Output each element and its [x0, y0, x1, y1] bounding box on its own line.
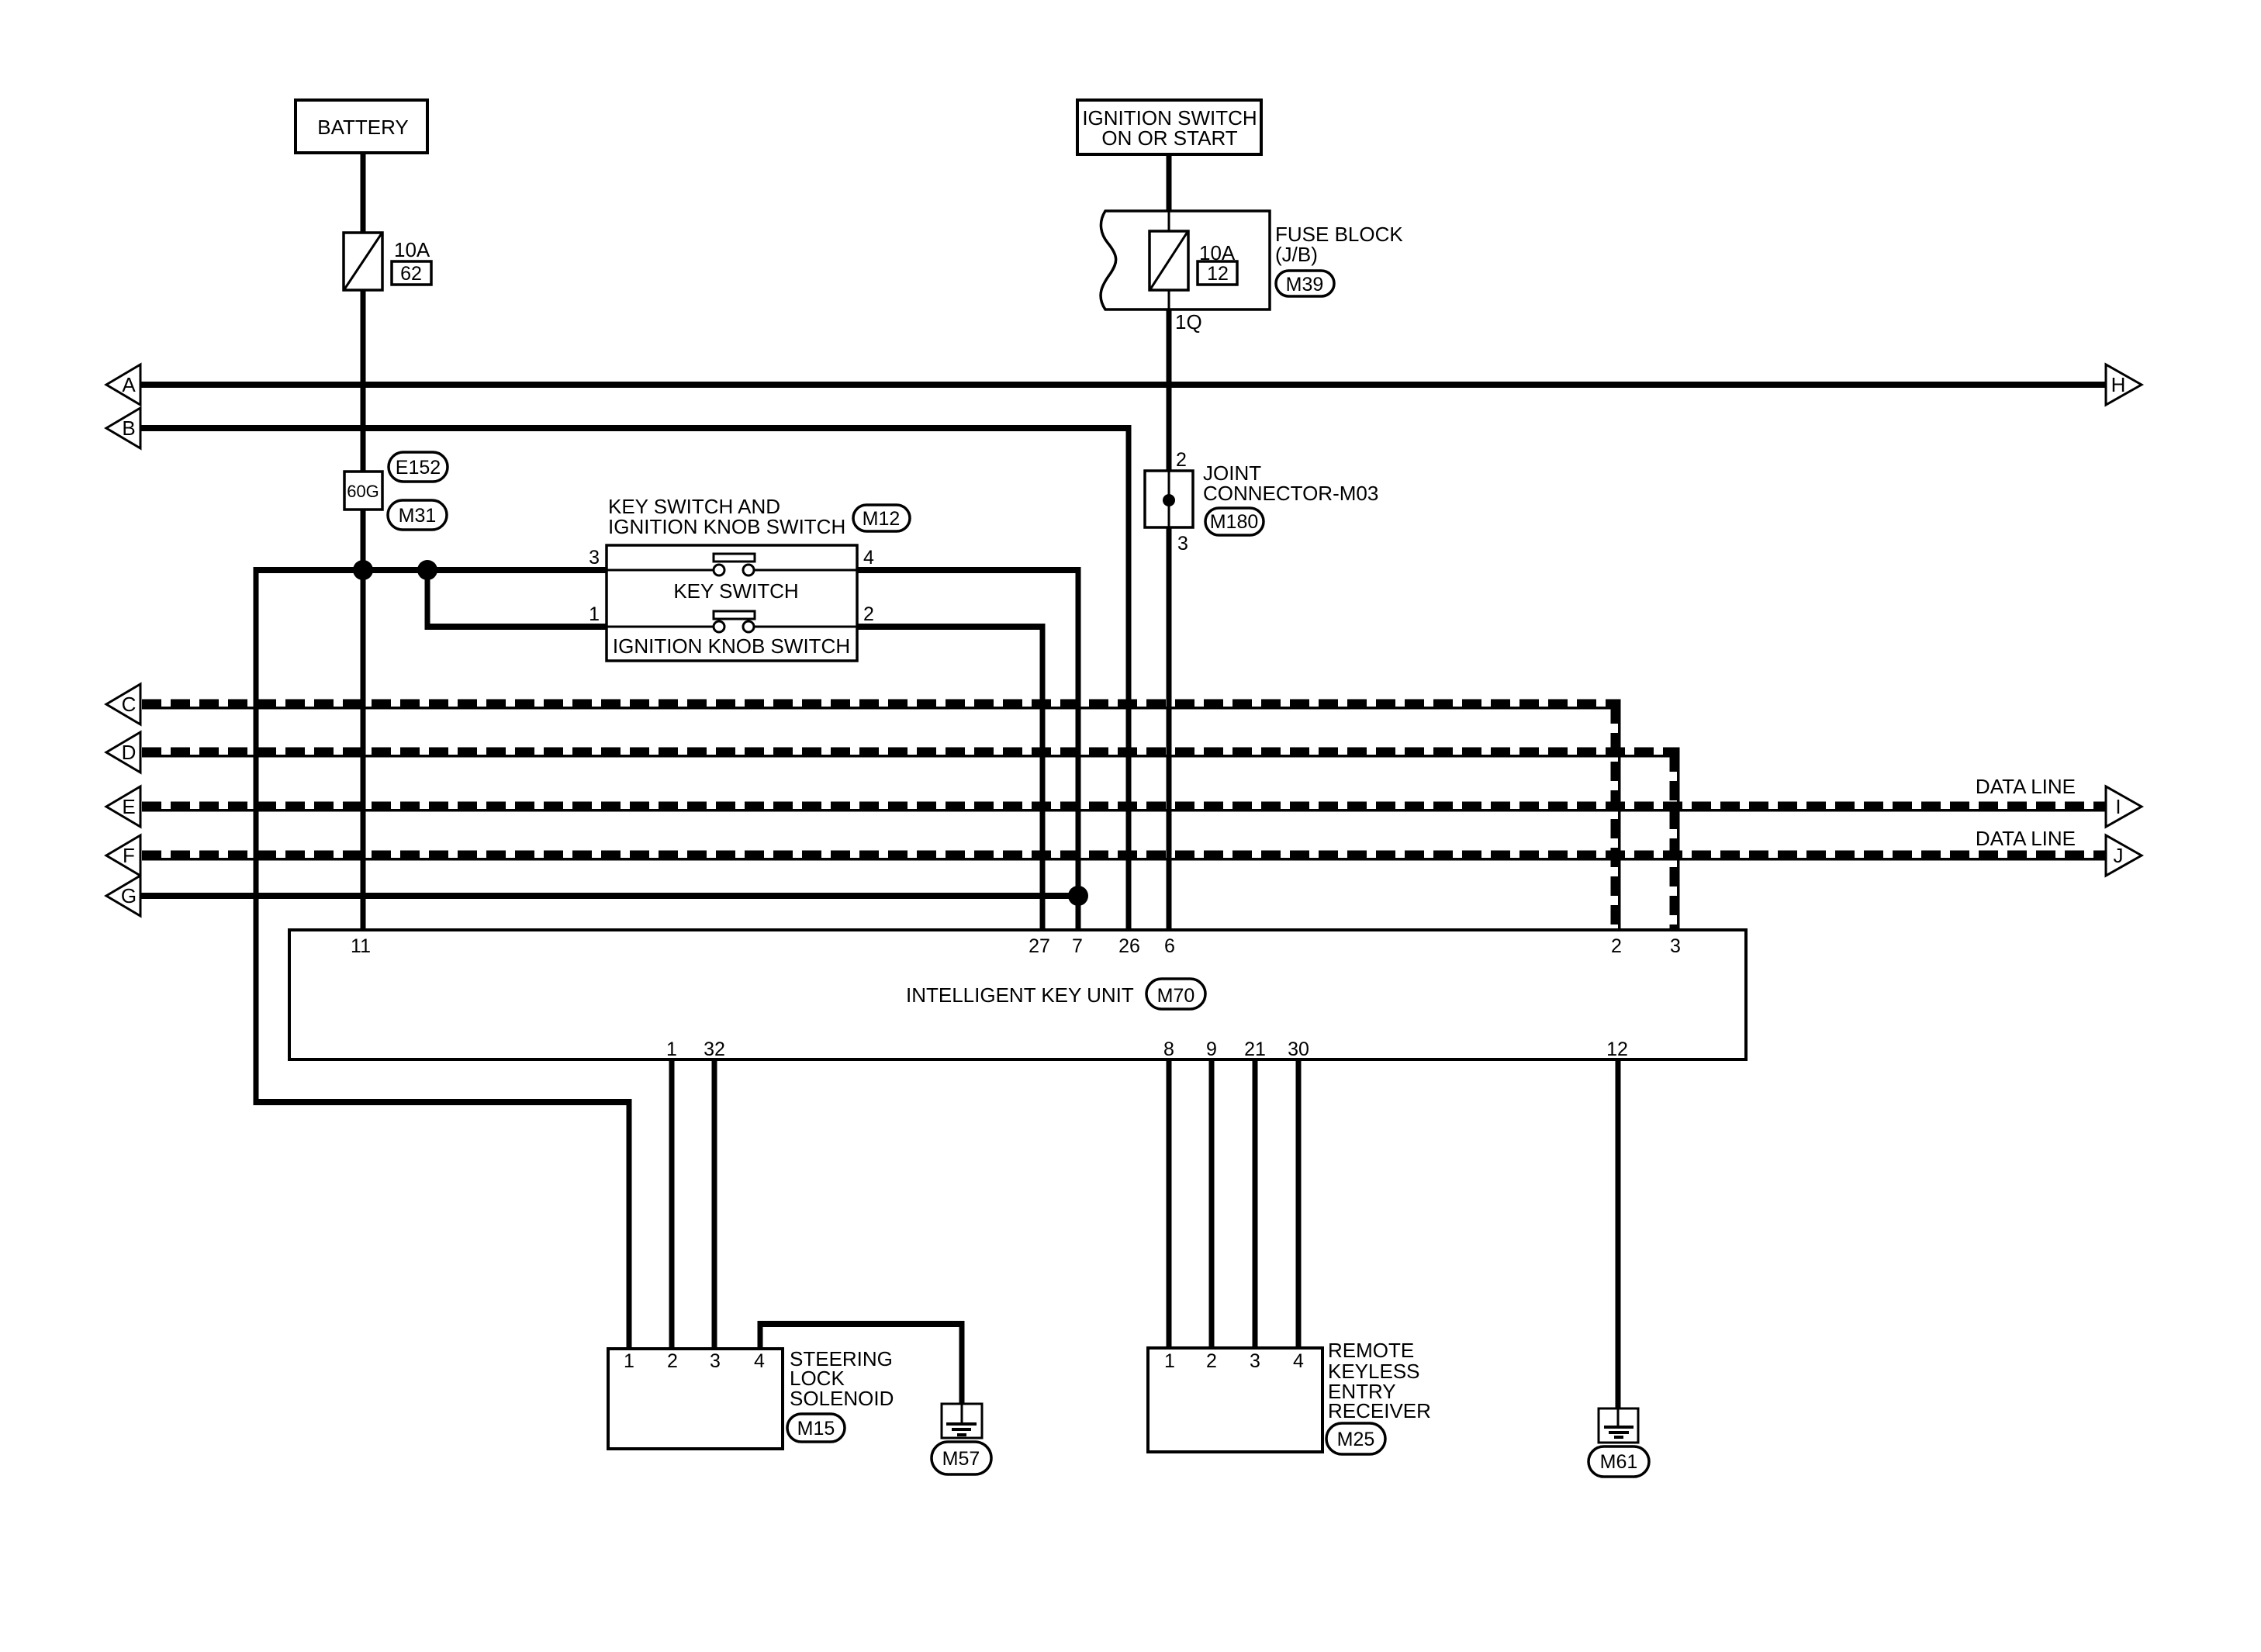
wire fuse 62 down to IKU pin 11	[361, 290, 366, 930]
svg-text:1: 1	[666, 1039, 677, 1060]
svg-text:B: B	[122, 416, 135, 440]
connector label M31	[388, 500, 447, 530]
connector label M12	[853, 505, 910, 531]
svg-text:27: 27	[1029, 935, 1050, 957]
connector label M25	[1326, 1423, 1385, 1454]
wire IKU pin 9 to receiver pin 2	[1209, 1059, 1215, 1348]
data line F	[142, 855, 2106, 859]
svg-text:3: 3	[589, 547, 600, 569]
arrow F	[106, 835, 140, 876]
wire joint connector to IKU pin 6	[1167, 527, 1172, 930]
svg-text:4: 4	[863, 547, 874, 569]
svg-text:DATA LINE: DATA LINE	[1976, 775, 2076, 798]
svg-text:BATTERY: BATTERY	[317, 116, 409, 139]
wire IKU pin 21 to receiver pin 3	[1253, 1059, 1258, 1348]
svg-text:M70: M70	[1157, 985, 1195, 1007]
svg-text:M180: M180	[1210, 511, 1259, 533]
data line C	[142, 700, 1621, 931]
svg-text:12: 12	[1207, 263, 1229, 285]
key switch pin 2 wire to IKU pin 27	[857, 624, 1046, 630]
svg-text:M12: M12	[863, 508, 901, 530]
svg-text:3: 3	[710, 1350, 721, 1372]
svg-text:RECEIVER: RECEIVER	[1328, 1399, 1431, 1422]
connector label E152	[389, 452, 448, 482]
svg-text:4: 4	[754, 1350, 765, 1372]
svg-text:M15: M15	[797, 1418, 835, 1439]
wire ignition switch to fuse block	[1167, 154, 1172, 211]
wire IKU pin 1 to solenoid pin 2	[669, 1059, 675, 1349]
wire 1Q to joint connector	[1167, 309, 1172, 473]
svg-text:M31: M31	[399, 505, 437, 527]
svg-text:(J/B): (J/B)	[1275, 243, 1318, 266]
svg-text:1: 1	[1164, 1350, 1175, 1372]
svg-text:E152: E152	[396, 457, 441, 479]
arrow C	[106, 684, 140, 724]
ground M57	[942, 1404, 982, 1438]
svg-text:21: 21	[1244, 1039, 1266, 1060]
arrow H	[2106, 365, 2142, 405]
svg-text:30: 30	[1288, 1039, 1309, 1060]
svg-text:DATA LINE: DATA LINE	[1976, 827, 2076, 850]
svg-text:3: 3	[1670, 935, 1681, 957]
remote keyless entry receiver M25	[1148, 1339, 1431, 1452]
key switch pin 4 wire to IKU pin 7	[857, 567, 1081, 573]
svg-text:60G: 60G	[347, 482, 379, 501]
svg-text:CONNECTOR-M03: CONNECTOR-M03	[1203, 482, 1378, 505]
junction dot battery/key switch	[353, 560, 373, 580]
svg-text:2: 2	[667, 1350, 678, 1372]
svg-text:KEY SWITCH: KEY SWITCH	[673, 579, 798, 603]
svg-text:E: E	[122, 795, 135, 818]
svg-text:1: 1	[589, 603, 600, 625]
junction dot G to IKU pin 7 wire	[1068, 886, 1088, 906]
svg-text:D: D	[122, 741, 137, 764]
fuse block (J/B)	[1101, 211, 1403, 309]
svg-text:G: G	[121, 884, 137, 907]
bus line G	[140, 893, 1078, 899]
svg-text:6: 6	[1164, 935, 1175, 957]
svg-text:4: 4	[1293, 1350, 1304, 1372]
battery box	[296, 100, 427, 153]
svg-text:3: 3	[1177, 533, 1188, 555]
intelligent key unit box M70	[289, 930, 1746, 1060]
svg-text:IGNITION KNOB SWITCH: IGNITION KNOB SWITCH	[608, 515, 845, 538]
svg-text:INTELLIGENT KEY UNIT: INTELLIGENT KEY UNIT	[906, 983, 1134, 1007]
connector label M61	[1589, 1446, 1649, 1477]
key switch and ignition knob switch M12	[589, 495, 874, 661]
svg-text:H: H	[2111, 373, 2126, 396]
connector label M15	[787, 1414, 845, 1442]
fuse 10A 62	[344, 233, 431, 290]
junction dot branch pin1	[417, 560, 437, 580]
wire B corner down to IKU pin 26	[1126, 426, 1132, 931]
svg-text:2: 2	[1176, 449, 1187, 471]
svg-text:2: 2	[1206, 1350, 1217, 1372]
arrow A	[106, 365, 140, 405]
data line D	[142, 748, 1680, 931]
wire IKU pin 12 to ground	[1616, 1059, 1621, 1408]
svg-text:1: 1	[624, 1350, 634, 1372]
svg-text:1Q: 1Q	[1175, 310, 1202, 334]
connector label M180	[1205, 508, 1264, 535]
svg-text:10A: 10A	[394, 238, 430, 261]
wire IKU pin 8 to receiver pin 1	[1167, 1059, 1172, 1348]
ignition switch box	[1077, 100, 1261, 154]
connector 60G	[344, 472, 382, 510]
data line E	[142, 807, 2106, 810]
svg-text:M57: M57	[942, 1448, 980, 1470]
svg-text:9: 9	[1206, 1039, 1217, 1060]
svg-text:SOLENOID: SOLENOID	[790, 1387, 894, 1410]
svg-text:REMOTE: REMOTE	[1328, 1339, 1414, 1362]
svg-text:A: A	[122, 373, 136, 396]
wire branch down to key switch pin 1	[425, 570, 430, 630]
wire IKU pin 30 to receiver pin 4	[1296, 1059, 1302, 1348]
connector label M39	[1276, 271, 1334, 296]
svg-text:3: 3	[1250, 1350, 1260, 1372]
joint connector M03	[1145, 449, 1378, 555]
svg-text:M39: M39	[1286, 274, 1324, 295]
svg-text:2: 2	[863, 603, 874, 625]
bus line A	[140, 382, 2106, 388]
wire battery junction row	[256, 567, 607, 573]
svg-text:12: 12	[1606, 1039, 1628, 1060]
wire solenoid pin 4 to ground	[758, 1322, 965, 1405]
svg-text:2: 2	[1611, 935, 1622, 957]
svg-text:M25: M25	[1337, 1429, 1375, 1450]
ground M61	[1599, 1408, 1638, 1443]
connector label M70	[1146, 979, 1205, 1009]
arrow G	[106, 876, 140, 916]
svg-text:8: 8	[1163, 1039, 1174, 1060]
wire IKU pin 32 to solenoid pin 3	[712, 1059, 717, 1349]
arrow B	[106, 408, 140, 448]
steering lock solenoid M15	[608, 1347, 894, 1449]
svg-text:IGNITION KNOB SWITCH: IGNITION KNOB SWITCH	[613, 634, 850, 658]
svg-text:7: 7	[1072, 935, 1083, 957]
svg-text:C: C	[122, 693, 137, 716]
svg-text:62: 62	[400, 263, 422, 285]
svg-text:F: F	[123, 844, 135, 867]
svg-text:ON OR START: ON OR START	[1101, 126, 1237, 150]
connector label M57	[932, 1442, 991, 1474]
arrow J	[2106, 835, 2142, 876]
svg-text:11: 11	[351, 935, 371, 957]
svg-text:M61: M61	[1600, 1451, 1638, 1473]
wire left branch to steering lock solenoid pin 1	[254, 567, 259, 1105]
bus line B	[140, 425, 1132, 431]
arrow E	[106, 786, 140, 827]
svg-text:I: I	[2115, 795, 2121, 818]
wire battery to fuse 62	[361, 153, 366, 233]
arrow I	[2106, 786, 2142, 827]
svg-text:26: 26	[1118, 935, 1140, 957]
arrow D	[106, 732, 140, 772]
svg-text:32: 32	[704, 1039, 725, 1060]
svg-text:J: J	[2114, 844, 2124, 867]
